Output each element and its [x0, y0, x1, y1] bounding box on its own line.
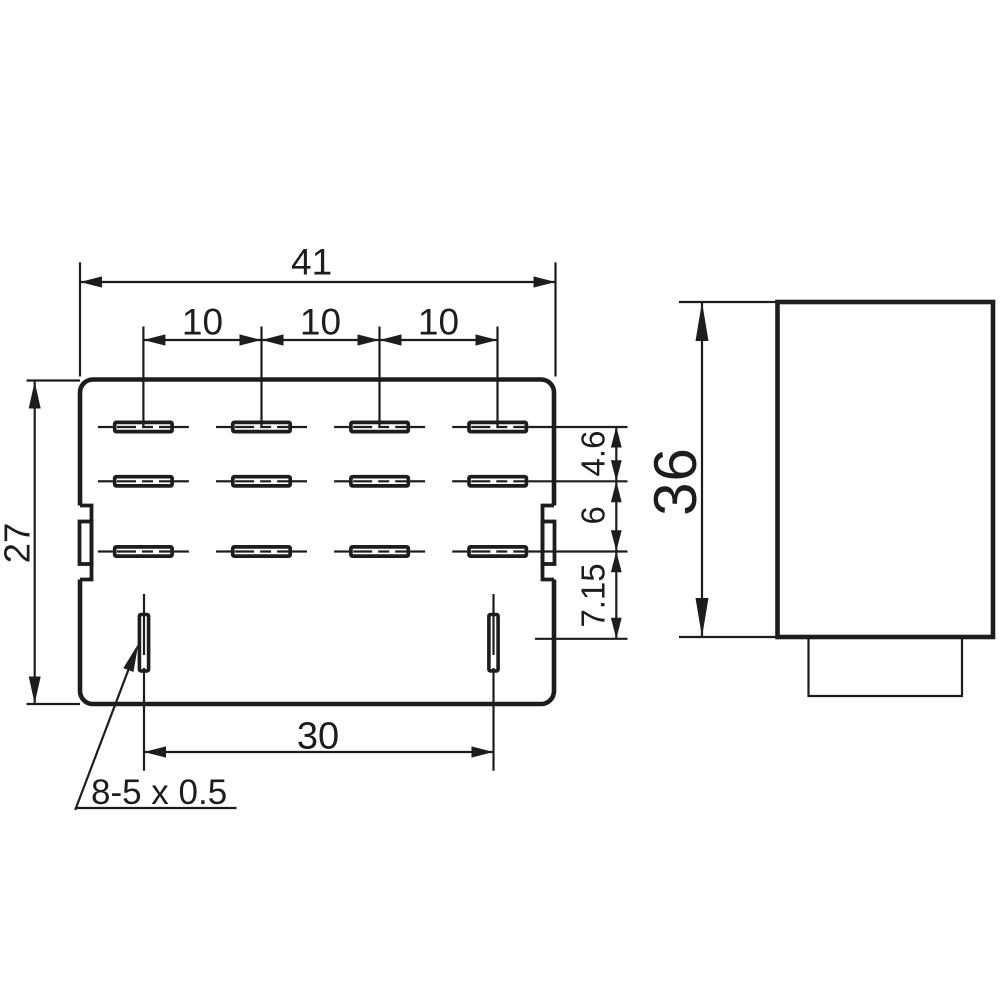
svg-text:8-5 x 0.5: 8-5 x 0.5 [91, 773, 227, 812]
svg-text:30: 30 [297, 716, 339, 758]
dimension 41 [80, 262, 556, 376]
pin slot row3 col1 [98, 547, 189, 556]
left keyway notch [80, 506, 92, 580]
pin slot row1 col1 [98, 422, 189, 431]
mounting slot left (vertical) [139, 594, 148, 771]
dimension 36 [679, 302, 778, 637]
svg-text:10: 10 [418, 302, 459, 343]
body outline (bottom view, rounded rect with side notch gaps) [80, 380, 554, 705]
pin slot row2 col4 [452, 477, 627, 486]
side view box [778, 302, 994, 637]
svg-text:10: 10 [300, 302, 341, 343]
dimension 27 [27, 381, 81, 705]
side view bottom flange [809, 639, 963, 696]
svg-text:4.6: 4.6 [575, 431, 612, 477]
pin slot row1 col3 [334, 422, 425, 431]
svg-text:10: 10 [182, 302, 223, 343]
pin slot row2 col1 [98, 477, 189, 486]
dimension 30 [144, 746, 494, 757]
mounting slot right (vertical) [489, 594, 498, 771]
svg-text:36: 36 [642, 447, 709, 516]
pin slot row1 col4 [452, 422, 627, 431]
dimension 10 (three segments) [143, 327, 497, 428]
svg-text:6: 6 [575, 506, 612, 524]
right side chained dimensions 4.6 / 6 / 7.15 [535, 427, 628, 639]
leader line for slot label [75, 644, 236, 810]
pin slot row3 col2 [216, 547, 307, 556]
right keyway notch [543, 506, 555, 580]
pin slot row3 col3 [334, 547, 425, 556]
pin slot row1 col2 [216, 422, 307, 431]
pin slot row2 col3 [334, 477, 425, 486]
svg-text:41: 41 [291, 242, 332, 283]
pin slot row3 col4 [452, 547, 627, 556]
svg-text:7.15: 7.15 [575, 563, 612, 627]
pin slot row2 col2 [216, 477, 307, 486]
svg-text:27: 27 [0, 523, 38, 564]
